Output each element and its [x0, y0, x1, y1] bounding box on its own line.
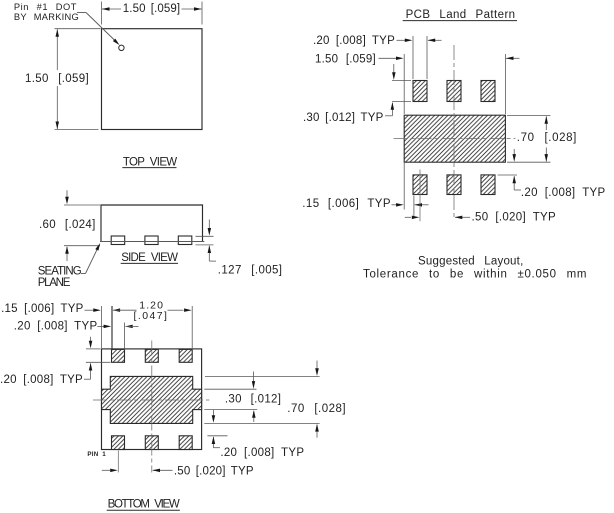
- dimension .50 [.020] TYP - arrows: [405, 216, 411, 218]
- extension line pin top right: [196, 235, 214, 237]
- pad 1 centerline extension: [419, 170, 421, 222]
- dimension .127 [.005] arrows: [208, 220, 210, 229]
- svg-text:.60 [.024]: .60 [.024]: [39, 219, 96, 231]
- svg-text:[.047]: [.047]: [134, 310, 169, 322]
- dimension .20 bottom right arrows: [212, 410, 214, 416]
- dimension .20 top arrows: [397, 39, 406, 41]
- land pattern bottom pad 2: [447, 175, 461, 195]
- bottom view bottom pad 1: [112, 436, 125, 450]
- bottom view center pad with side tabs: [102, 376, 202, 423]
- extension line pin bottom right: [196, 244, 214, 246]
- side view pin 3: [178, 236, 192, 245]
- side view pin 1: [111, 236, 125, 245]
- bottom view bottom pad 3: [179, 436, 192, 450]
- dimension .15 extension lines: [403, 163, 405, 210]
- svg-text:.20 [.008] TYP: .20 [.008] TYP: [0, 374, 83, 386]
- pin #1 index dot: [119, 45, 124, 50]
- extension line seating plane left: [64, 245, 100, 247]
- dimension .60 [.024] arrows: [66, 190, 68, 197]
- svg-text:.70 [.028]: .70 [.028]: [517, 132, 577, 144]
- land pattern top pad 3: [481, 81, 495, 102]
- pad1 centerline extension below: [117, 451, 119, 473]
- dimension .20 left elbow leader: [84, 378, 91, 380]
- svg-text:1.50 [.059]: 1.50 [.059]: [25, 73, 89, 85]
- land pattern center pad: [404, 115, 505, 162]
- dimension .20 left arrows: [90, 337, 92, 342]
- svg-text:.15 [.006] TYP: .15 [.006] TYP: [302, 198, 391, 210]
- dimension .127 [.005] elbow leader: [209, 260, 216, 262]
- extension line package left edge up: [101, 306, 103, 348]
- dimension .20 [.008] TYP left side - extension lines: [86, 348, 101, 350]
- bottom view top pad 1: [112, 349, 125, 362]
- dimension .15 leader arrow: [85, 309, 94, 311]
- bottom view top pad 3: [179, 349, 192, 362]
- dimension 1.50 leader and arrows: [379, 57, 397, 59]
- land pattern top pad 2: [447, 81, 461, 102]
- left dimension extension line bottom: [55, 129, 99, 131]
- dimension .70 arrows bottom view: [316, 361, 318, 370]
- svg-text:.127 [.005]: .127 [.005]: [218, 264, 283, 276]
- dimension .20 right arrows: [513, 149, 515, 155]
- svg-text:Pin #1 DOT: Pin #1 DOT: [14, 2, 77, 12]
- svg-text:.30 [.012]: .30 [.012]: [225, 394, 281, 406]
- extension line body top left: [64, 204, 100, 206]
- left dimension extension line top: [55, 28, 101, 30]
- svg-text:.20 [.008] TYP: .20 [.008] TYP: [313, 35, 395, 47]
- svg-text:.20 [.008] TYP: .20 [.008] TYP: [521, 187, 606, 199]
- svg-text:PCB Land Pattern: PCB Land Pattern: [406, 9, 516, 21]
- svg-text:SIDE VIEW: SIDE VIEW: [121, 252, 178, 264]
- bottom view bottom pad 2: [145, 436, 158, 450]
- dimension 1.50 extension lines: [403, 54, 405, 114]
- svg-text:Suggested Layout,: Suggested Layout,: [418, 255, 523, 267]
- svg-text:PIN 1: PIN 1: [87, 451, 106, 458]
- svg-text:BY MARKING: BY MARKING: [14, 12, 79, 22]
- svg-text:SEATING: SEATING: [38, 265, 82, 277]
- dimension .20 leader and arrows: [97, 325, 104, 327]
- dimension 1.50 [.059] horizontal - line and arrows: [102, 8, 121, 10]
- svg-text:Tolerance to be within ±0.050: Tolerance to be within ±0.050 mm: [363, 268, 587, 280]
- top dimension extension line left: [101, 2, 103, 25]
- dimension .30 [.012] - extension lines: [204, 388, 256, 390]
- svg-text:BOTTOM VIEW: BOTTOM VIEW: [108, 499, 180, 511]
- dimension .70 arrows: [545, 116, 547, 130]
- side view package body outline: [101, 205, 203, 242]
- svg-text:TOP VIEW: TOP VIEW: [123, 156, 177, 168]
- dimension .50 [.020] TYP bottom view - arrows: [102, 469, 110, 471]
- svg-text:PLANE: PLANE: [38, 277, 71, 289]
- seating plane line through pins: [100, 241, 204, 243]
- leader from label to pin 1 dot: [77, 12, 86, 14]
- vertical centerline bottom view: [151, 341, 153, 473]
- land pattern bottom pad 1: [413, 175, 427, 195]
- svg-text:.20 [.008] TYP: .20 [.008] TYP: [220, 447, 304, 459]
- land pattern top pad 1: [413, 81, 427, 102]
- svg-text:.70 [.028]: .70 [.028]: [287, 403, 346, 415]
- dimension .15 leader and arrows: [392, 204, 397, 206]
- top view package body outline: [102, 29, 203, 130]
- dimension 1.50 [.059] vertical - line and arrows: [56, 29, 58, 70]
- side view pin 2: [145, 236, 158, 245]
- dimension .30 arrows bottom view: [253, 372, 255, 382]
- land pattern bottom pad 3: [481, 175, 495, 195]
- dimension .30 arrows: [393, 64, 395, 73]
- svg-text:1.50 [.059]: 1.50 [.059]: [123, 3, 180, 15]
- dimension .70 [.028] bottom view - extension lines: [205, 376, 320, 378]
- horizontal centerline bottom view: [93, 399, 209, 401]
- horizontal centerline through center pad: [394, 138, 516, 140]
- svg-text:.15 [.006] TYP: .15 [.006] TYP: [1, 303, 84, 315]
- dimension .20 top extension lines: [412, 36, 414, 79]
- dimension .20 [.008] TYP right - extension line: [498, 174, 517, 176]
- svg-text:.50 [.020] TYP: .50 [.020] TYP: [472, 212, 557, 224]
- dimension .30 elbow leader: [385, 115, 392, 117]
- bottom view top pad 2: [145, 349, 158, 362]
- vertical centerline through middle pads: [453, 45, 455, 218]
- dimension .20 bottom right elbow leader: [213, 447, 220, 449]
- dimension .20 right elbow leader: [514, 189, 521, 191]
- top dimension extension line right: [201, 2, 203, 25]
- dimension .30 extension lines: [392, 79, 411, 81]
- dimension .70 [.028] - extension lines: [507, 115, 551, 117]
- svg-text:.50 [.020] TYP: .50 [.020] TYP: [174, 466, 254, 478]
- svg-text:.30 [.012] TYP: .30 [.012] TYP: [303, 112, 384, 124]
- dimension 1.20 extension lines: [111, 306, 113, 350]
- bottom view package body outline: [102, 349, 202, 450]
- leader from SEATING PLANE to seating line: [81, 273, 86, 275]
- dimension .20 [.008] TYP bottom right - extension line: [207, 435, 227, 437]
- dimension 1.20 [.047] - arrows: [113, 308, 121, 312]
- svg-text:.20 [.008] TYP: .20 [.008] TYP: [14, 320, 98, 332]
- extension line pad1 right edge: [124, 323, 126, 350]
- svg-text:1.50 [.059]: 1.50 [.059]: [315, 53, 376, 65]
